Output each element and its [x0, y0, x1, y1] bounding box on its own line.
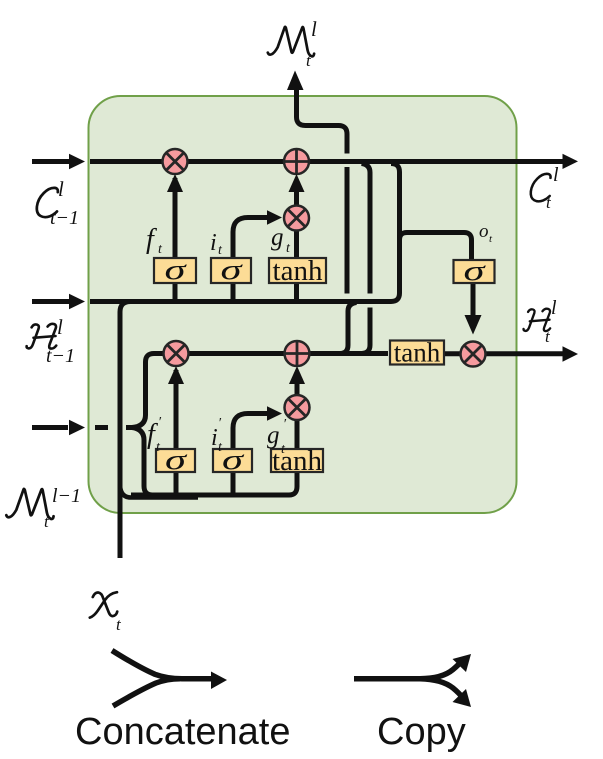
wire: g gate stem [294, 180, 299, 301]
svg-text:i: i [210, 230, 217, 256]
label C_t^l (right output) [531, 164, 559, 212]
arrowhead: H input [69, 294, 85, 310]
wire: M input down-branch [132, 428, 153, 496]
wire: X_t vertical merging into gate line [120, 302, 131, 559]
sigma box i_t [211, 254, 251, 286]
arrowhead: i' hook into multiply g' [267, 406, 282, 420]
svg-text:Copy: Copy [377, 711, 466, 753]
label H_t^l (right output) [524, 297, 557, 346]
wire: f gate stem [173, 178, 178, 301]
arrowhead: into multiply f' [168, 366, 184, 384]
label C_{t-1}^l (left input) [37, 177, 79, 229]
svg-text:l: l [58, 177, 64, 201]
wire: sigma_o output arrow stem [471, 283, 476, 318]
svg-text:l: l [311, 17, 317, 41]
cell body (green rounded box) [89, 96, 517, 513]
sigma box f_t [154, 254, 196, 286]
wire: i gate stem and hook [233, 218, 267, 302]
arrowhead: H output [563, 346, 579, 362]
wire: C line (top horizontal) [90, 159, 564, 164]
arrowhead: into add upper [289, 174, 305, 192]
add node (upper C row) [284, 149, 309, 174]
wire: M output riser lower part with merge arc [341, 303, 357, 354]
arrowhead: M output (top) [287, 71, 304, 91]
legend: copy symbol [354, 660, 463, 699]
add node (M row) [285, 341, 310, 366]
sigma box f'_t [156, 444, 195, 476]
wire: lower gate input line with X branch corner and rise to tanh' stem [131, 420, 297, 495]
multiply node g' (i'*g') [285, 395, 310, 420]
arrowhead: i hook into multiply g [267, 210, 282, 224]
wire: M input dash 1 [95, 425, 108, 430]
svg-text:σ: σ [221, 254, 244, 286]
tanh box g_t [269, 255, 326, 287]
wire: o_t feed branch to sigma_o [400, 233, 472, 261]
arrowhead: C output [563, 154, 579, 169]
svg-text:tanh: tanh [394, 338, 441, 368]
legend: concatenate arrowhead [211, 672, 227, 690]
label X_t (bottom input) [90, 592, 122, 634]
svg-text:t: t [306, 51, 312, 70]
arrowhead: M input [69, 420, 85, 436]
wire: M input dash 2 [126, 425, 133, 430]
svg-text:σ: σ [464, 255, 487, 287]
sigma box i'_t [213, 444, 252, 476]
wire: H output line [444, 351, 563, 356]
label M_t^{l-1} (left input) [6, 485, 81, 531]
label g'_t [267, 417, 287, 457]
arrowhead: C input [69, 154, 85, 170]
wire: gate input line [X,H] with right-end rise to C line [90, 164, 400, 302]
label i'_t [211, 416, 223, 455]
wire: g' output arrow stem [295, 372, 300, 396]
wire: M output riser mid part [345, 167, 350, 294]
sigma box o_t [454, 255, 495, 287]
label M_t^l (top output) [268, 17, 317, 70]
svg-text:tanh: tanh [272, 445, 322, 477]
arrowhead: sigma_o into multiply out [465, 315, 482, 335]
multiply node output (H row) [461, 342, 486, 367]
svg-text:i: i [211, 425, 218, 451]
svg-text:σ: σ [165, 254, 188, 286]
wire: i' hook and stem [233, 414, 267, 496]
svg-text:l: l [551, 297, 557, 319]
svg-text:tanh: tanh [273, 255, 323, 287]
label g_t [271, 224, 291, 256]
tanh box g'_t [271, 445, 323, 477]
legend: concatenate symbol [112, 651, 213, 707]
label o_t [479, 221, 493, 245]
svg-text:g: g [271, 224, 284, 251]
svg-text:t−1: t−1 [46, 345, 75, 367]
wire: C branch down (below gate line) [368, 308, 373, 346]
tanh box H output [390, 338, 444, 368]
svg-text:o: o [479, 221, 489, 242]
wire: C branch down to tanh input (top part) [362, 164, 371, 294]
svg-text:σ: σ [222, 444, 245, 476]
label f'_t [147, 415, 162, 455]
arrowhead: into add lower [289, 366, 305, 384]
multiply node f' (M row) [164, 341, 189, 366]
arrowhead: into multiply f [167, 174, 183, 192]
svg-text:t: t [546, 193, 552, 212]
wire: f' stem [174, 370, 179, 495]
svg-text:t: t [116, 615, 122, 634]
svg-text:g: g [267, 422, 280, 449]
label f_t [146, 224, 163, 257]
svg-text:l: l [57, 315, 63, 339]
svg-text:t−1: t−1 [50, 207, 79, 229]
label H_{t-1}^l (left input) [27, 315, 75, 367]
label i_t [210, 230, 223, 258]
wire: C branch corner into M row [362, 345, 370, 354]
wire: M input arrow shaft [32, 425, 68, 430]
svg-text:l−1: l−1 [52, 485, 81, 507]
svg-text:Concatenate: Concatenate [75, 711, 291, 753]
wire: M input up-branch and M row line [132, 354, 388, 428]
wire: M output riser top jog and exit [297, 87, 348, 154]
svg-text:l: l [553, 164, 559, 186]
svg-text:σ: σ [165, 444, 188, 476]
multiply node f (upper C row) [163, 149, 188, 174]
svg-text:t: t [44, 512, 50, 531]
legend: copy arrowheads [453, 654, 472, 672]
multiply node g (i*g) [284, 206, 309, 231]
